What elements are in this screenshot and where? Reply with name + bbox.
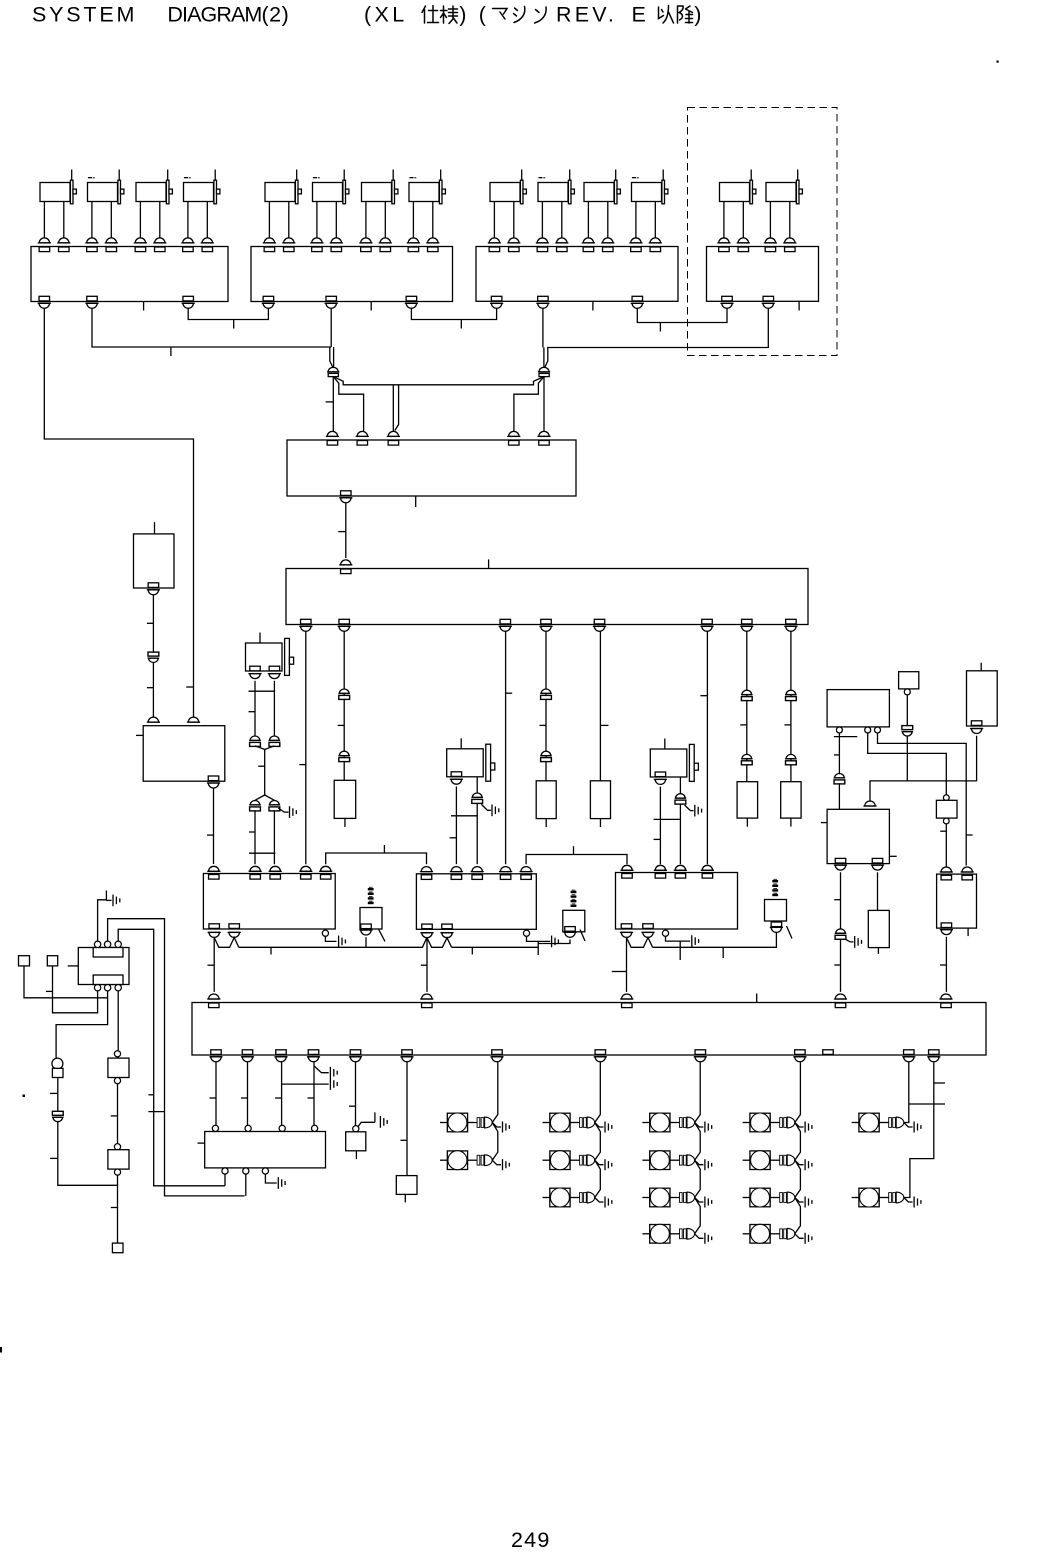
wire CTRL-A pin2 route — [868, 733, 947, 795]
connector M17 pin1 — [655, 772, 666, 777]
wire PCB2.J3 to PCB3.J1 — [411, 309, 496, 320]
heater load — [868, 910, 889, 947]
dashed option-unit enclosure — [688, 108, 838, 356]
tick — [679, 941, 681, 960]
pin circle CN-G bottom — [104, 985, 110, 991]
tick — [50, 1092, 58, 1094]
motor M13 — [717, 170, 756, 252]
wire MAIN.8 to solenoid SL5 — [790, 631, 792, 781]
tick — [654, 838, 661, 840]
board PSU — [143, 726, 225, 782]
tick — [600, 724, 608, 726]
ground — [691, 935, 693, 947]
board RLY5 — [937, 874, 977, 928]
connector on IFB bottom — [492, 1050, 503, 1055]
board PCB1 — [31, 247, 228, 302]
wire MAIN.5 to solenoid SL3 — [599, 631, 601, 781]
ground — [481, 804, 490, 810]
connector on RLY5 top — [941, 867, 951, 872]
motor M17 — [650, 739, 698, 782]
wire pair into connector CN-L — [330, 347, 333, 368]
sensor S3 — [765, 900, 787, 922]
stray dot top right — [997, 61, 999, 63]
wire ENC to MAIN board — [345, 503, 347, 558]
lamp L42 — [743, 1151, 795, 1170]
ground — [845, 939, 854, 942]
wire lamp bus column 5 row3 — [904, 1062, 934, 1197]
wire CTRL-B down — [906, 695, 908, 726]
connector on PCB3 bottom — [538, 296, 549, 301]
svg-text:(2): (2) — [262, 3, 290, 27]
tick — [111, 1207, 118, 1209]
wire CTRL-C junction drop to RLY5 — [965, 781, 967, 866]
connector on RLY3 bottom — [621, 924, 632, 929]
box CTRL-B — [899, 672, 919, 689]
wire — [838, 783, 840, 809]
pin circle NF bottom — [222, 1168, 228, 1174]
tick FSR left — [821, 822, 827, 824]
board IFB — [192, 1003, 986, 1056]
svg-text:E: E — [632, 3, 646, 27]
tick — [233, 320, 235, 329]
ground for L42 — [795, 1160, 804, 1165]
connector on IFB bottom — [795, 1050, 806, 1055]
stub CTRL-C top — [980, 663, 982, 671]
label for S1 — [368, 888, 374, 890]
wire ground branch diag — [314, 1066, 329, 1073]
svg-text:REV.: REV. — [556, 3, 617, 27]
wire IFB.1 to NF — [215, 1062, 217, 1125]
motor M2 — [85, 170, 124, 252]
wire MAIN.7 to solenoid SL4 — [746, 631, 748, 781]
board PCB4 — [707, 247, 819, 302]
tick — [383, 845, 385, 853]
tick — [338, 724, 345, 726]
wire IFB.4 to NF — [313, 1062, 315, 1125]
connector on MAIN bottom — [742, 619, 753, 624]
ground for L53 — [904, 1198, 913, 1203]
connector on IFB top — [422, 994, 432, 999]
connector inline — [836, 929, 846, 933]
wire CTRL-A pin1 to FSR board — [838, 733, 840, 773]
wire RLY1 circle to ground — [325, 936, 336, 941]
connector on IFB bottom — [242, 1050, 253, 1055]
tick — [700, 695, 707, 697]
wire tie — [249, 690, 275, 692]
wire CN-G pin3 to lower-left — [118, 929, 225, 1186]
connector on IFB bottom — [929, 1050, 940, 1055]
connector S2 — [565, 927, 576, 932]
connector S1 — [361, 924, 372, 929]
wire RLY2 to RLY3 — [526, 855, 627, 865]
connector inline — [52, 1111, 63, 1115]
tick — [540, 724, 547, 726]
pin circle NF top — [312, 1125, 318, 1131]
svg-text:249: 249 — [511, 1528, 550, 1552]
sensor S2 — [563, 910, 585, 932]
tick — [934, 1082, 945, 1084]
node under RLY2 (crossed pair) — [426, 938, 428, 992]
connector on ENC top — [357, 431, 367, 436]
wire CN-G pin1 to ground — [98, 891, 107, 942]
lamp L22 — [543, 1151, 595, 1170]
svg-text:DIAGRAM: DIAGRAM — [167, 3, 261, 27]
stray mark page edge — [0, 1347, 2, 1353]
wire CN-G pin2 to lower-left — [108, 919, 245, 1196]
tick — [299, 764, 306, 766]
connector on RLY5 top — [962, 867, 972, 872]
board RLY2 — [416, 874, 536, 930]
connector inline — [835, 774, 845, 778]
connector on RLY3 top — [655, 865, 665, 870]
connector on PCB2 bottom — [406, 296, 417, 301]
connector block CN-G — [78, 948, 129, 985]
wire T1 to CN-G — [24, 966, 108, 998]
tick — [940, 830, 946, 832]
tick on RLY2 drop — [421, 964, 428, 966]
wire CTRL-A pin3 snake route — [870, 733, 977, 803]
wire RLY2 circle to ground — [527, 936, 551, 941]
tick — [834, 736, 857, 738]
connector inline — [339, 689, 349, 693]
pin circle CN-G top — [104, 941, 110, 947]
pin circle NF top — [279, 1125, 285, 1131]
connector on MAIN bottom — [500, 619, 511, 624]
ground — [329, 1078, 331, 1090]
tick — [326, 401, 334, 403]
wire S0 to PSU — [152, 595, 154, 652]
tick — [966, 834, 972, 836]
wire MAIN.1 to RLY1 board — [305, 631, 307, 864]
connector on RLY2 bottom — [422, 924, 433, 929]
box CTRL-C — [967, 671, 998, 726]
connector inline M16 — [472, 793, 482, 797]
ground — [278, 808, 288, 812]
connector on MAIN top — [341, 560, 351, 565]
tick — [450, 837, 457, 839]
connector on ENC top — [509, 431, 519, 436]
tick — [148, 1094, 153, 1096]
board PCB3 — [476, 247, 678, 302]
tick on RLY3 drop — [612, 971, 627, 973]
tick — [740, 724, 747, 726]
wire CTRL-C to H-bus — [976, 736, 978, 782]
tick — [46, 990, 53, 992]
box NF (noise filter) — [205, 1132, 326, 1168]
node under RLY1 (crossed pair) — [213, 938, 215, 992]
pin circle CN-G bottom — [94, 985, 100, 991]
wire — [840, 939, 842, 992]
connector on FSR top — [865, 801, 875, 806]
wire M17 left to RLY3 — [659, 787, 661, 865]
stub — [355, 1151, 357, 1159]
wire RLY1 to RLY2 — [326, 853, 427, 864]
connector on RLY1 bottom — [209, 924, 220, 929]
connector inline — [902, 726, 913, 730]
connector on RLY2 top — [421, 867, 431, 872]
tick — [249, 831, 255, 833]
connector on RLY3 top — [675, 865, 685, 870]
ground for L32 — [695, 1160, 704, 1165]
board PCB2 — [251, 247, 453, 302]
stub on PCB1 bottom — [143, 302, 145, 311]
connector CTRL-C bottom — [971, 721, 982, 726]
connector on PCB1 bottom — [87, 296, 98, 301]
connector inline — [541, 689, 551, 693]
wire THS to RLY5 — [945, 824, 947, 867]
connector inline — [541, 751, 551, 755]
lamp L11 — [440, 1113, 492, 1132]
tick — [241, 1097, 248, 1099]
pin circle — [353, 1126, 359, 1132]
stub — [154, 522, 156, 534]
connector on PCB1 bottom — [39, 296, 50, 301]
wire RLY5 to IFB — [945, 937, 947, 992]
tick — [940, 964, 946, 966]
wire M17 right — [679, 777, 681, 794]
ground for L51 — [904, 1123, 913, 1128]
connector on MAIN bottom — [594, 619, 605, 624]
pin circle — [943, 818, 949, 824]
wire bus RLY3 to sensor S3 — [653, 931, 777, 948]
connector on PCB2 bottom — [263, 296, 274, 301]
wire — [57, 1078, 59, 1112]
ground for L23 — [595, 1198, 604, 1203]
lamp L33 — [642, 1188, 694, 1207]
wire to H-bus — [906, 736, 908, 781]
connector on PSU top — [148, 717, 158, 722]
label for S3 — [772, 880, 778, 882]
tick — [338, 531, 346, 533]
wire merge — [255, 746, 274, 795]
wire T2 to CN-G pin1 — [53, 966, 98, 1013]
wire tie — [249, 852, 275, 854]
pin circle CTRL-A — [875, 727, 881, 733]
plain notch on IFB bottom — [823, 1050, 834, 1055]
connector FSR bottom 2 — [872, 858, 883, 863]
motor M12 — [629, 170, 668, 252]
lamp L41 — [743, 1113, 795, 1132]
pin circle CTRL-A — [865, 727, 871, 733]
pin circle CN-G bottom — [115, 985, 121, 991]
pin circle NF bottom — [262, 1168, 268, 1174]
wire PSU to RLY1 — [213, 788, 215, 864]
breaker CB2 — [114, 1144, 120, 1150]
pin circle under RLY3 — [662, 930, 668, 936]
box CTRL-A — [827, 690, 889, 727]
pin circle CN-G top — [115, 941, 121, 947]
wire CN-L fanout to ENC box — [332, 377, 334, 432]
tick — [834, 754, 840, 756]
wire to RLY3 — [679, 804, 681, 865]
connector inline — [339, 751, 349, 755]
wire to RLY1 — [255, 810, 274, 864]
connector FSR bottom 1 — [835, 858, 846, 863]
terminal square T3 — [112, 1243, 123, 1253]
wire to terminal — [117, 1175, 119, 1243]
wire — [117, 1084, 119, 1144]
connector on ENC top — [539, 431, 549, 436]
wire bus RLY1-RLY2 — [239, 937, 427, 947]
lamp L51 — [852, 1113, 904, 1132]
board ENC interface — [287, 440, 576, 496]
stub — [537, 941, 539, 955]
wire — [152, 663, 154, 718]
ground for L33 — [695, 1198, 704, 1203]
box PS1 — [346, 1132, 366, 1151]
ground for L34 — [695, 1234, 704, 1239]
board MAIN controller — [286, 569, 808, 625]
motor M3 — [134, 170, 173, 252]
connector inline M15-D — [270, 801, 280, 805]
ground — [277, 1177, 279, 1189]
wire tie — [654, 818, 681, 820]
stub RLY5 bottom — [967, 928, 969, 936]
wire tie — [451, 815, 477, 817]
ground for L31 — [695, 1123, 704, 1128]
wire lamp bus column 2 — [595, 1062, 601, 1197]
pin circle CN-G top — [94, 941, 100, 947]
wire to RLY2 — [476, 803, 478, 864]
tick — [186, 686, 193, 688]
motor M5 — [263, 170, 302, 252]
stub IFB top — [756, 994, 758, 1003]
pin circle under RLY1 — [322, 930, 328, 936]
pin circle — [943, 795, 949, 801]
connector M15 pin1 — [250, 666, 261, 671]
lever S3 — [787, 926, 793, 939]
solenoid SL2 — [536, 781, 556, 819]
connector ENC bottom — [341, 491, 352, 496]
ground — [379, 1116, 381, 1128]
tick — [249, 711, 256, 713]
solenoid SL3 — [590, 781, 610, 819]
connector inline M15-B — [270, 736, 280, 740]
terminal — [52, 1068, 63, 1077]
connector S0 bottom — [148, 583, 159, 588]
stub on PCB3 bottom — [592, 302, 594, 311]
wire S2 to node — [538, 940, 570, 944]
wire PS1 to ground — [358, 1112, 375, 1126]
solenoid SL4 — [737, 782, 758, 818]
tick — [471, 947, 473, 954]
wire PCB1.J2 to junction — [92, 309, 331, 347]
board FSR — [827, 809, 889, 863]
connector on RLY1 top — [250, 866, 260, 871]
terminal square T2 — [47, 956, 57, 966]
wire IFB.3 to NF — [281, 1062, 283, 1125]
connector on MAIN bottom — [786, 619, 797, 624]
connector on RLY1 bottom — [229, 924, 240, 929]
wire MAIN.6 to RLY3 board — [706, 631, 708, 864]
svg-text:(XL: (XL — [364, 3, 408, 27]
wire CN-G pin2 bottom to fuse column — [56, 991, 108, 1059]
svg-text:) (: ) ( — [459, 3, 489, 27]
connector on IFB bottom — [308, 1050, 319, 1055]
connector M16 pin1 — [451, 772, 462, 777]
wire PCB3.J3 to PCB4.J1 — [637, 309, 727, 323]
tick — [210, 1097, 217, 1099]
connector on MAIN bottom — [301, 619, 312, 624]
solenoid SL5 — [781, 782, 801, 818]
tick — [460, 320, 462, 329]
connector CN-R — [539, 367, 549, 372]
tick on PSU left — [136, 734, 143, 736]
tick — [308, 1097, 315, 1099]
wire PCB2.J2 down — [330, 309, 332, 347]
ground for L43 — [795, 1198, 804, 1203]
label for S2 — [571, 891, 577, 893]
connector on IFB top — [941, 994, 951, 999]
connector PSU bottom — [208, 776, 219, 781]
tick — [722, 947, 724, 958]
motor M4 — [181, 170, 220, 252]
wire ground branch — [282, 1083, 329, 1085]
connector CN-L — [328, 367, 338, 372]
connector inline M15-C — [250, 801, 260, 805]
connector on PCB1 bottom — [183, 296, 194, 301]
connector on IFB bottom — [595, 1050, 606, 1055]
tick NF left — [198, 1142, 205, 1144]
stub — [404, 1194, 406, 1202]
pin circle CTRL-B — [904, 689, 910, 695]
wire lamp bus column 3 — [695, 1062, 701, 1234]
board RLY3 — [616, 873, 738, 930]
svg-text:): ) — [694, 3, 701, 27]
stub on PCB2 bottom — [370, 302, 372, 311]
stub ENC bottom — [415, 496, 417, 507]
tick — [50, 1157, 58, 1159]
connector on RLY2 top — [472, 867, 482, 872]
connector S3 — [771, 922, 782, 927]
tick — [659, 323, 661, 332]
connector inline — [742, 754, 752, 758]
wire IFB.2 to NF — [247, 1062, 249, 1125]
ground — [685, 805, 694, 811]
motor M6 — [310, 170, 349, 252]
connector on PCB4 bottom — [763, 296, 774, 301]
lamp L21 — [543, 1113, 595, 1132]
stub on PCB4 bottom — [798, 302, 800, 311]
connector inline M17 — [676, 794, 686, 798]
ground — [338, 936, 340, 948]
connector on PCB4 bottom — [722, 296, 733, 301]
connector M15 pin2 — [269, 666, 280, 671]
wire IFB.6 to sensor PS2 — [406, 1062, 408, 1175]
ground for L12 — [492, 1160, 501, 1165]
connector on MAIN bottom — [541, 619, 552, 624]
wire NF out2 — [245, 1174, 247, 1196]
motor M15 — [246, 633, 294, 676]
motor M11 — [582, 170, 621, 252]
wire PCB3.J2 down to CN-R — [543, 309, 544, 368]
connector on RLY3 top — [622, 865, 632, 870]
connector inline CN-S0 — [148, 652, 159, 656]
wire split — [255, 795, 274, 800]
connector on RLY2 top — [521, 867, 531, 872]
sensor S1 — [360, 908, 382, 930]
wire FSR.1 to IFB — [840, 872, 842, 928]
box sensor S0 — [134, 534, 175, 588]
tick CN-G left — [68, 965, 79, 967]
connector on IFB bottom — [904, 1050, 915, 1055]
wire NF out1 — [224, 1174, 226, 1186]
wire FSR.2 to heater load — [877, 872, 879, 910]
connector on MAIN bottom — [702, 619, 713, 624]
pin circle NF bottom — [243, 1168, 249, 1174]
tick — [834, 899, 840, 901]
lamp L44 — [743, 1224, 795, 1243]
